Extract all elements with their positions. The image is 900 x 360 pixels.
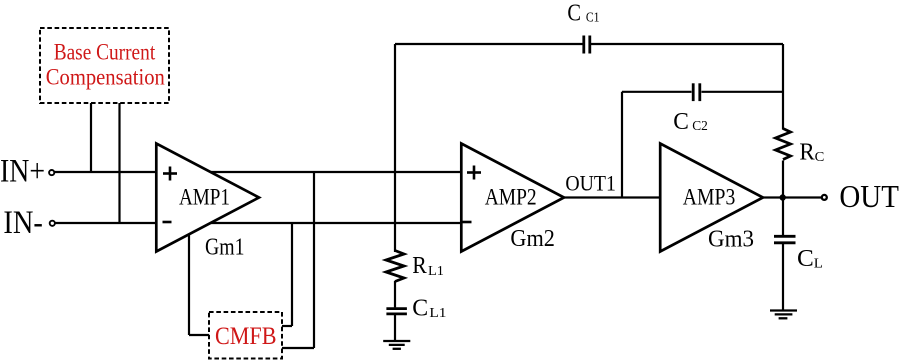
svg-text:C: C [815, 150, 825, 165]
svg-text:IN-: IN- [3, 205, 43, 241]
svg-text:Gm2: Gm2 [510, 225, 555, 252]
svg-text:L1: L1 [429, 306, 446, 321]
svg-text:OUT: OUT [839, 178, 899, 214]
svg-text:C: C [797, 245, 814, 272]
svg-text:Compensation: Compensation [46, 65, 165, 90]
svg-text:Gm1: Gm1 [205, 234, 245, 261]
svg-text:C1: C1 [586, 10, 600, 25]
svg-text:L1: L1 [428, 264, 444, 279]
svg-text:C: C [412, 294, 428, 321]
svg-text:Gm3: Gm3 [708, 226, 754, 253]
svg-text:AMP1: AMP1 [179, 185, 230, 210]
svg-text:AMP3: AMP3 [683, 185, 736, 210]
svg-text:C2: C2 [692, 119, 708, 134]
svg-text:IN+: IN+ [0, 154, 45, 190]
svg-text:AMP2: AMP2 [485, 185, 537, 210]
svg-text:CMFB: CMFB [215, 323, 277, 350]
svg-text:OUT1: OUT1 [565, 171, 616, 196]
svg-text:C: C [673, 108, 689, 135]
svg-text:C: C [567, 0, 581, 26]
svg-text:L: L [814, 256, 823, 271]
svg-text:Base Current: Base Current [54, 40, 156, 65]
svg-text:R: R [799, 138, 815, 165]
svg-text:R: R [412, 252, 427, 279]
